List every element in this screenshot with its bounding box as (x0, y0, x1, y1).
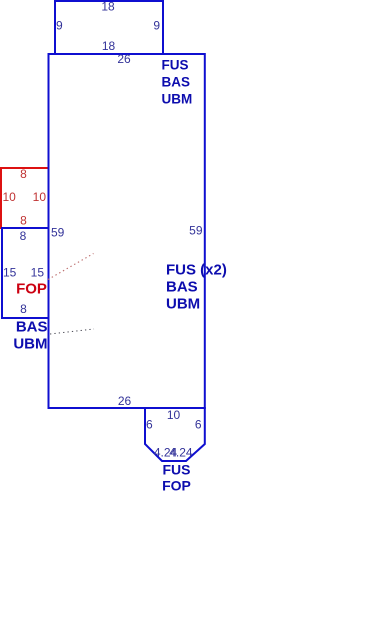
svg-text:FOP: FOP (16, 281, 47, 298)
svg-text:10: 10 (3, 190, 17, 204)
svg-text:8: 8 (20, 167, 27, 181)
gray dotted leader line from BAS/UBM (50, 329, 94, 334)
svg-text:FUS: FUS (163, 462, 191, 478)
blue panel rect (left lower, 8x15 FOP) (2, 228, 49, 318)
main panel rect (26x59) (49, 54, 205, 408)
svg-text:UBM: UBM (13, 336, 47, 353)
bottom hexagon FUS/FOP piece (145, 408, 205, 461)
svg-text:BAS: BAS (16, 319, 48, 336)
svg-text:FOP: FOP (162, 478, 191, 494)
svg-text:26: 26 (118, 394, 132, 408)
svg-text:UBM: UBM (166, 296, 200, 313)
svg-text:9: 9 (153, 19, 160, 33)
svg-text:BAS: BAS (162, 75, 191, 90)
svg-text:UBM: UBM (162, 92, 193, 107)
svg-text:FUS: FUS (162, 58, 189, 73)
svg-text:9: 9 (56, 19, 63, 33)
red dotted leader line from FOP (48, 254, 94, 280)
svg-text:4.24: 4.24 (169, 446, 193, 460)
panel top rect (18x9) (55, 1, 163, 54)
svg-text:59: 59 (189, 224, 203, 238)
red panel rect (left upper, 8x10) (1, 168, 49, 228)
svg-text:10: 10 (167, 408, 181, 422)
svg-text:8: 8 (20, 229, 27, 243)
svg-text:26: 26 (117, 52, 131, 66)
svg-text:15: 15 (31, 266, 45, 280)
svg-text:6: 6 (146, 418, 153, 432)
svg-text:8: 8 (20, 214, 27, 228)
svg-text:18: 18 (101, 0, 115, 14)
svg-text:BAS: BAS (166, 279, 198, 296)
svg-text:15: 15 (3, 266, 17, 280)
svg-text:6: 6 (195, 418, 202, 432)
svg-text:8: 8 (20, 302, 27, 316)
svg-text:10: 10 (33, 190, 47, 204)
svg-text:18: 18 (102, 39, 116, 53)
svg-text:FUS (x2): FUS (x2) (166, 262, 227, 279)
svg-text:59: 59 (51, 226, 65, 240)
